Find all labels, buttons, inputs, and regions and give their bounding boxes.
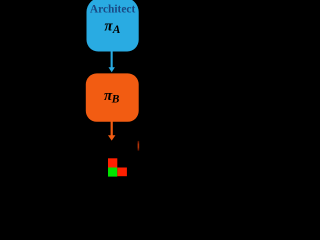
arrowhead B to env bbox=[108, 135, 115, 140]
architect box bbox=[87, 0, 139, 52]
wire arrow A to B stem bbox=[111, 51, 113, 68]
svg-text:Architect: Architect bbox=[90, 3, 136, 15]
svg-text:B: B bbox=[111, 94, 120, 106]
grid cell red top-left bbox=[108, 158, 117, 167]
svg-text:A: A bbox=[112, 24, 121, 36]
builder box bbox=[86, 73, 139, 121]
grid cell red bottom-right bbox=[117, 168, 127, 177]
arrowhead A to B bbox=[109, 67, 115, 72]
grid cell green bottom-left bbox=[108, 168, 117, 177]
red tick mark bbox=[138, 141, 140, 151]
wire arrow B to env stem bbox=[111, 122, 113, 136]
